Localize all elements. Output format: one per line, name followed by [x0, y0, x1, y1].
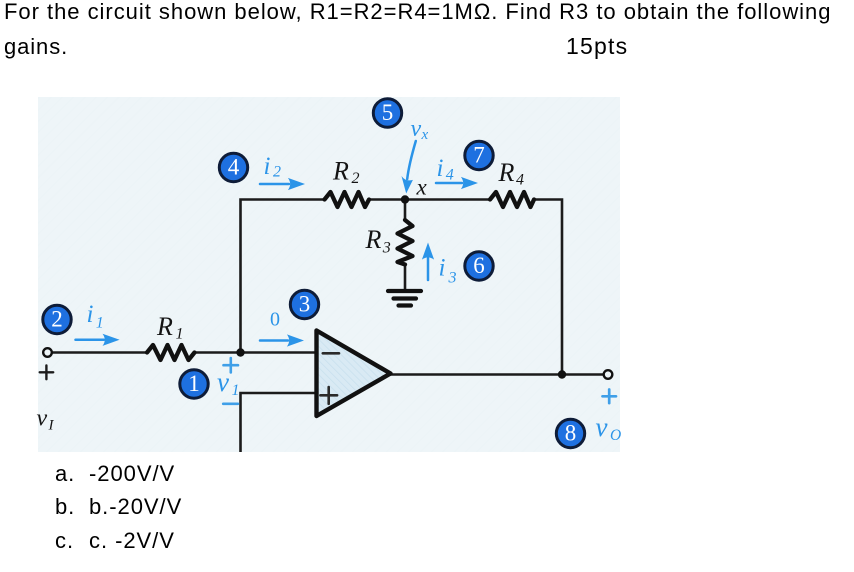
svg-text:v: v [411, 116, 422, 142]
svg-text:4: 4 [446, 167, 454, 184]
svg-text:7: 7 [473, 143, 485, 168]
svg-text:1: 1 [96, 315, 104, 332]
svg-text:2: 2 [51, 307, 63, 332]
svg-text:4: 4 [228, 155, 240, 180]
svg-text:R: R [156, 312, 173, 341]
svg-text:3: 3 [382, 240, 391, 257]
svg-text:1: 1 [232, 382, 240, 399]
svg-text:1: 1 [176, 326, 184, 343]
svg-text:v: v [37, 406, 48, 432]
svg-text:4: 4 [516, 172, 524, 189]
svg-text:8: 8 [565, 421, 577, 446]
svg-text:3: 3 [448, 270, 457, 287]
svg-text:5: 5 [382, 100, 394, 125]
svg-text:1: 1 [188, 371, 200, 396]
svg-text:i: i [439, 255, 446, 282]
svg-text:6: 6 [473, 253, 485, 278]
svg-text:2: 2 [352, 170, 360, 187]
svg-text:x: x [416, 175, 428, 200]
svg-text:I: I [48, 418, 55, 434]
svg-text:2: 2 [273, 164, 281, 181]
svg-text:i: i [87, 301, 94, 328]
svg-text:O: O [610, 427, 621, 444]
svg-text:v: v [217, 367, 229, 397]
svg-text:v: v [596, 412, 608, 442]
svg-text:i: i [264, 153, 271, 180]
svg-text:R: R [365, 225, 382, 254]
svg-text:3: 3 [299, 292, 311, 317]
svg-text:R: R [332, 157, 349, 186]
svg-text:x: x [421, 127, 429, 143]
svg-text:i: i [437, 155, 444, 182]
svg-text:R: R [498, 158, 515, 187]
svg-text:0: 0 [270, 309, 280, 331]
